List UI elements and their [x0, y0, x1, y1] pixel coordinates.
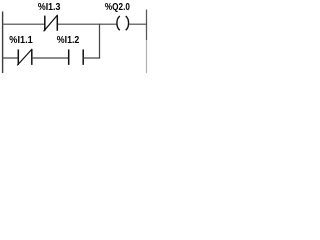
contact %I1.3 NC slash [44, 15, 58, 31]
right rail continuation (light) [146, 40, 148, 73]
svg-text:%I1.3: %I1.3 [38, 2, 61, 13]
right power rail (dark upper segment) [146, 10, 148, 41]
contact %I1.1 (NC) right bar [31, 49, 33, 65]
left power rail [2, 12, 4, 74]
wire top rung: coil to right rail [129, 23, 147, 25]
coil %Q2.0 right paren [126, 16, 129, 30]
contact %I1.2 (NO) left bar [68, 49, 70, 65]
contact %I1.1 (NC) left bar [17, 49, 19, 65]
svg-text:%I1.1: %I1.1 [9, 35, 33, 46]
contact %I1.3 (NC) right bar [56, 16, 58, 31]
wire top rung: rail to contact I1.3 [2, 23, 45, 25]
contact %I1.2 (NO) right bar [82, 49, 84, 65]
contact %I1.1 NC slash [17, 49, 32, 66]
svg-text:%Q2.0: %Q2.0 [105, 2, 130, 13]
coil %Q2.0 left paren [117, 16, 120, 30]
wire branch: rail to contact I1.1 [2, 57, 18, 59]
wire branch: I1.2 to riser [83, 57, 100, 59]
branch riser wire [99, 24, 101, 59]
svg-text:%I1.2: %I1.2 [57, 35, 80, 46]
wire top rung: contact I1.3 to coil [57, 23, 116, 25]
contact %I1.3 (NC) left bar [44, 16, 46, 31]
wire branch: I1.1 to I1.2 [32, 57, 69, 59]
